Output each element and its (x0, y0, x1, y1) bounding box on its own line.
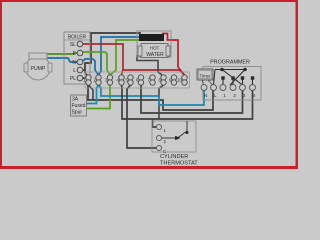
svg-text:WATER: WATER (146, 52, 164, 58)
svg-text:Timer: Timer (199, 73, 211, 78)
svg-text:2: 2 (233, 93, 236, 98)
svg-text:THERMOSTAT: THERMOSTAT (160, 161, 198, 167)
svg-text:HOT: HOT (150, 46, 160, 51)
svg-text:BOILER: BOILER (68, 35, 87, 41)
svg-text:N: N (72, 60, 76, 66)
svg-text:CYLINDER: CYLINDER (160, 154, 188, 160)
svg-text:3A: 3A (72, 97, 79, 103)
svg-text:3: 3 (243, 93, 246, 98)
svg-text:Fused: Fused (72, 103, 86, 109)
svg-text:Spur: Spur (72, 110, 83, 116)
svg-text:L: L (214, 93, 217, 98)
svg-text:4: 4 (253, 93, 256, 98)
svg-text:L: L (73, 68, 76, 74)
svg-text:1: 1 (223, 93, 226, 98)
svg-text:PUMP: PUMP (31, 66, 46, 72)
svg-text:PL: PL (70, 76, 76, 82)
svg-text:SL: SL (70, 42, 76, 48)
svg-text:PROGRAMMER: PROGRAMMER (210, 60, 250, 66)
svg-text:10: 10 (177, 78, 182, 83)
svg-text:N: N (204, 93, 207, 98)
